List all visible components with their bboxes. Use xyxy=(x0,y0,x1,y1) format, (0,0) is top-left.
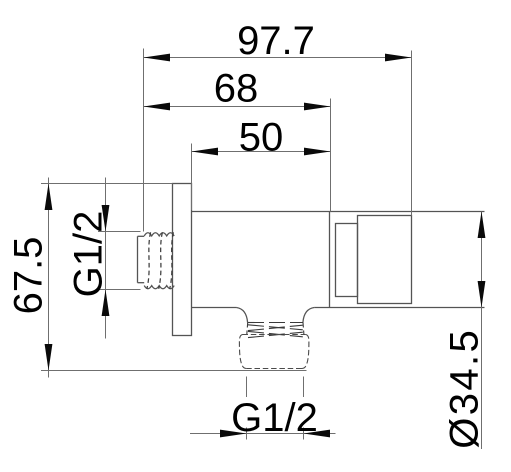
svg-text:G1/2: G1/2 xyxy=(231,396,318,440)
svg-text:97.7: 97.7 xyxy=(237,19,315,63)
svg-text:Ø34.5: Ø34.5 xyxy=(443,328,487,449)
svg-text:67.5: 67.5 xyxy=(7,237,51,315)
svg-text:G1/2: G1/2 xyxy=(67,211,111,298)
svg-text:68: 68 xyxy=(214,67,259,111)
svg-text:50: 50 xyxy=(239,115,284,159)
